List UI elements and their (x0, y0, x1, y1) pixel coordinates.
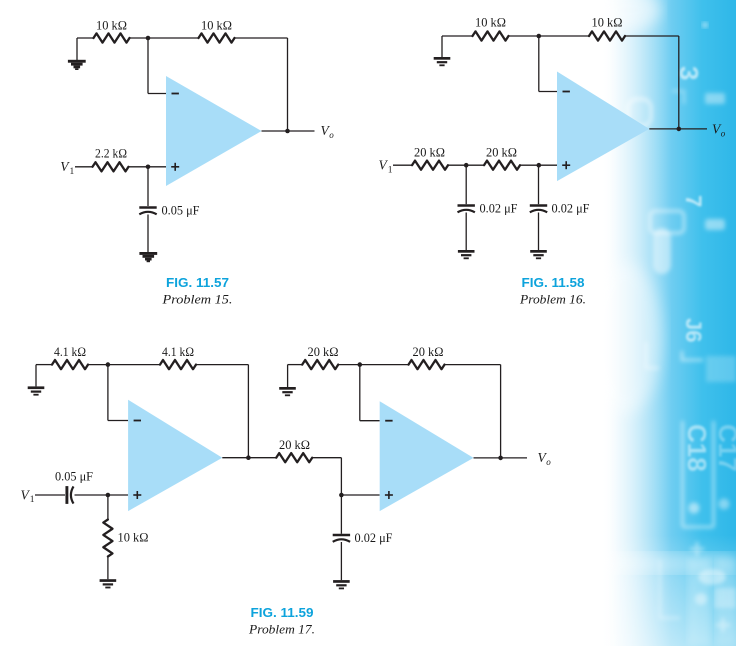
svg-text:FIG. 11.59: FIG. 11.59 (251, 606, 314, 620)
svg-text:1: 1 (70, 167, 75, 177)
svg-text:10 kΩ: 10 kΩ (475, 15, 506, 30)
svg-text:Problem 16.: Problem 16. (519, 292, 586, 307)
svg-text:0.02 μF: 0.02 μF (355, 530, 393, 545)
svg-text:0.02 μF: 0.02 μF (552, 200, 590, 215)
svg-text:20 kΩ: 20 kΩ (308, 344, 339, 359)
svg-text:J6: J6 (681, 318, 706, 342)
svg-text:2.2 kΩ: 2.2 kΩ (95, 146, 127, 161)
svg-text:0.05 μF: 0.05 μF (162, 203, 200, 218)
svg-text:1: 1 (30, 495, 35, 505)
svg-text:10 kΩ: 10 kΩ (96, 17, 127, 32)
svg-text:10 kΩ: 10 kΩ (118, 530, 149, 545)
svg-text:Problem 17.: Problem 17. (248, 622, 315, 637)
svg-text:C17: C17 (713, 424, 736, 472)
svg-text:20 kΩ: 20 kΩ (486, 144, 517, 159)
svg-text:0.05 μF: 0.05 μF (55, 468, 93, 483)
svg-text:20 kΩ: 20 kΩ (279, 437, 310, 452)
svg-text:10 kΩ: 10 kΩ (592, 15, 623, 30)
svg-text:FIG. 11.58: FIG. 11.58 (522, 276, 585, 290)
svg-text:C18: C18 (682, 424, 712, 472)
svg-text:10 kΩ: 10 kΩ (201, 17, 232, 32)
svg-text:o: o (546, 457, 551, 467)
svg-text:Problem 15.: Problem 15. (161, 292, 232, 307)
svg-text:7: 7 (681, 195, 706, 207)
svg-text:o: o (329, 130, 334, 140)
svg-text:20 kΩ: 20 kΩ (414, 144, 445, 159)
svg-text:1: 1 (388, 166, 393, 176)
svg-text:20 kΩ: 20 kΩ (413, 344, 444, 359)
svg-text:FIG. 11.57: FIG. 11.57 (166, 276, 229, 290)
svg-text:4.1 kΩ: 4.1 kΩ (162, 344, 194, 359)
svg-text:4.1 kΩ: 4.1 kΩ (54, 344, 86, 359)
svg-text:o: o (721, 128, 726, 138)
svg-text:0.02 μF: 0.02 μF (480, 200, 518, 215)
